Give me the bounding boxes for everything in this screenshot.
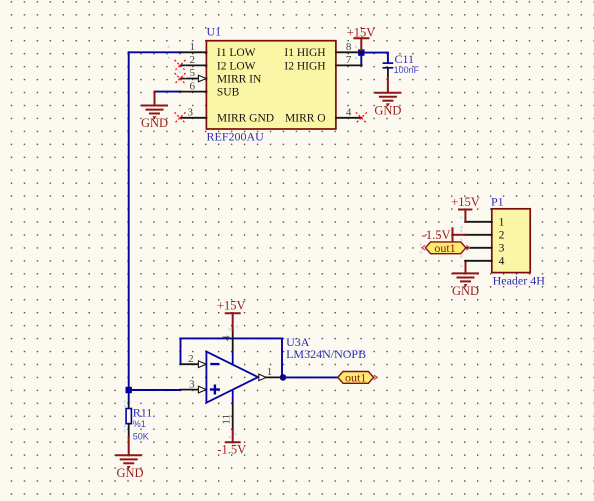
opamp pin 2 xyxy=(181,353,207,368)
svg-text:I2 HIGH: I2 HIGH xyxy=(284,60,325,72)
wire opamp output to out1 xyxy=(282,376,338,378)
resistor R11 xyxy=(126,403,131,437)
opamp output pin 1 xyxy=(259,366,282,381)
U1 pin 4 xyxy=(336,107,361,119)
compile marks faint blue dots xyxy=(124,46,463,439)
U1 pin 3 xyxy=(181,107,207,119)
svg-text:out1: out1 xyxy=(345,371,366,385)
capacitor C11 xyxy=(383,63,394,76)
svg-text:MIRR IN: MIRR IN xyxy=(217,73,262,85)
ground GND below R11 xyxy=(115,437,143,480)
no-connect X pin2 xyxy=(175,60,186,71)
junction at opamp output xyxy=(280,374,287,381)
port out1 at P1 pin3 xyxy=(422,241,470,255)
wire pin1 U1 horizontal xyxy=(129,51,181,53)
svg-text:out1: out1 xyxy=(434,241,455,255)
no-connect X pin5 xyxy=(175,73,186,84)
compile mark X pins 2-5 xyxy=(174,66,186,78)
U1 pin 6 xyxy=(181,80,207,92)
svg-text:I2 LOW: I2 LOW xyxy=(217,60,256,72)
svg-text:I1 HIGH: I1 HIGH xyxy=(284,47,325,59)
port out1 at opamp output xyxy=(338,371,378,385)
svg-text:2: 2 xyxy=(188,353,194,365)
svg-text:-1.5V: -1.5V xyxy=(422,228,451,242)
P1 pin 1 xyxy=(466,217,505,229)
opamp pin 3 xyxy=(181,378,207,393)
U1 MIRR IN input arrow xyxy=(198,75,206,82)
U1 pin 1 xyxy=(181,41,207,53)
svg-text:GND: GND xyxy=(141,116,168,130)
header P1 body xyxy=(492,209,530,273)
IC U1 body xyxy=(206,41,336,129)
power +15V at U1 pin8 xyxy=(347,25,376,50)
ground GND below C11 xyxy=(374,76,401,117)
svg-text:50K: 50K xyxy=(133,432,149,442)
svg-text:I1 LOW: I1 LOW xyxy=(217,47,256,59)
svg-text:-1.5V: -1.5V xyxy=(217,443,246,457)
svg-text:+15V: +15V xyxy=(217,298,246,312)
U1 pin 7 xyxy=(336,54,362,66)
svg-text:2: 2 xyxy=(499,230,505,242)
svg-text:6: 6 xyxy=(190,80,196,92)
P1 pin 3 xyxy=(466,243,505,255)
power -1.5V at opamp xyxy=(217,429,246,456)
svg-text:GND: GND xyxy=(452,284,479,298)
svg-text:100nF: 100nF xyxy=(394,65,420,75)
svg-text:2: 2 xyxy=(190,54,196,66)
svg-text:P1: P1 xyxy=(491,195,504,209)
wire U1 pin7 up to junction xyxy=(360,53,362,66)
op-amp U3A triangle xyxy=(206,352,258,403)
wire U1 pin6 to GND stub xyxy=(155,91,181,93)
wire left vertical long xyxy=(128,52,130,390)
svg-text:Header 4H: Header 4H xyxy=(493,274,546,288)
opamp power pin 4 line xyxy=(220,330,232,364)
svg-text:R11: R11 xyxy=(133,406,153,420)
svg-text:+15V: +15V xyxy=(451,195,480,209)
opamp minus sign xyxy=(210,363,219,365)
power +15V at opamp xyxy=(217,298,246,330)
ground GND at P1 pin4 xyxy=(452,261,479,298)
svg-text:SUB: SUB xyxy=(217,87,240,99)
svg-text:4: 4 xyxy=(220,335,232,341)
svg-text:3: 3 xyxy=(499,243,505,255)
P1 pin 4 xyxy=(466,256,505,268)
wire junction to opamp pin3 xyxy=(129,389,181,391)
wire opamp feedback loop xyxy=(181,338,283,377)
opamp power pin 11 line xyxy=(220,390,232,430)
junction at +15V / pin8 xyxy=(358,49,364,55)
svg-text:U1: U1 xyxy=(207,25,222,39)
svg-text:1: 1 xyxy=(267,366,273,378)
U1 pin 2 xyxy=(181,54,207,66)
no-connect X pin3 xyxy=(175,112,186,123)
ground GND at U1 SUB pin xyxy=(141,92,168,131)
U1 pin 8 xyxy=(336,41,361,53)
svg-text:3: 3 xyxy=(187,107,193,119)
svg-text:REF200AU: REF200AU xyxy=(207,130,265,144)
svg-text:4: 4 xyxy=(346,107,352,119)
svg-text:3: 3 xyxy=(189,378,195,390)
P1 pin 2 xyxy=(466,230,505,242)
svg-text:1: 1 xyxy=(190,41,196,53)
no-connect X pin4 xyxy=(356,112,367,123)
power -1.5V at P1 pin2 xyxy=(422,228,466,242)
wire +15V junction to C11 xyxy=(361,53,388,63)
svg-text:%1: %1 xyxy=(133,419,146,429)
svg-text:LM324N/NOPB: LM324N/NOPB xyxy=(286,347,366,361)
svg-text:7: 7 xyxy=(346,54,352,66)
U1 pin 5 xyxy=(181,67,207,79)
svg-text:1: 1 xyxy=(499,217,505,229)
svg-text:4: 4 xyxy=(499,256,505,268)
svg-text:8: 8 xyxy=(346,41,352,53)
svg-text:GND: GND xyxy=(116,466,143,480)
svg-text:GND: GND xyxy=(374,103,401,117)
power +15V at P1 pin1 xyxy=(451,195,480,222)
junction at R11 / pin3 xyxy=(126,387,132,393)
wire junction down to R11 xyxy=(128,390,130,403)
svg-text:MIRR O: MIRR O xyxy=(285,113,326,125)
opamp plus sign xyxy=(210,385,220,395)
svg-text:11: 11 xyxy=(220,414,232,425)
svg-text:5: 5 xyxy=(190,67,196,79)
svg-text:MIRR GND: MIRR GND xyxy=(217,113,274,125)
